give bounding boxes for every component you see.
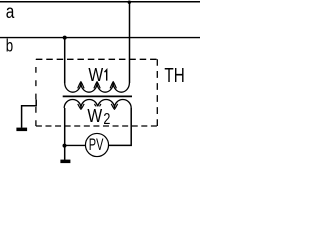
winding W2 cusp 1 bbox=[78, 104, 84, 109]
voltmeter PV circle bbox=[85, 133, 108, 156]
wire: junction to PV left bbox=[65, 144, 86, 146]
junction dot on line b bbox=[63, 36, 67, 40]
winding W1 cusp 3 bbox=[110, 82, 116, 89]
svg-text:W: W bbox=[87, 105, 102, 126]
transformer core line bbox=[63, 95, 132, 97]
svg-text:2: 2 bbox=[103, 111, 110, 128]
W2 label background bbox=[86, 106, 112, 124]
winding W1 cusp 1 bbox=[78, 82, 84, 89]
wire: W2 left end down to ground bbox=[64, 108, 66, 160]
dashed enclosure TH box: bottom edge bbox=[36, 125, 157, 127]
wire: horizontal from box edge to left bbox=[22, 106, 37, 128]
winding W1 (primary coil, loops facing down) bbox=[65, 83, 130, 92]
ground (bottom): bar under junction bbox=[60, 160, 70, 164]
winding W2 cusp 2 bbox=[95, 104, 101, 109]
ground (left): bar bbox=[16, 128, 27, 132]
svg-text:W: W bbox=[88, 64, 103, 85]
winding W2 cusp 3 bbox=[111, 104, 117, 109]
wire: vertical from line b to W1 left end bbox=[64, 38, 66, 83]
wire: vertical from line a to W1 right end bbox=[129, 2, 131, 83]
winding W1 cusp 2 bbox=[94, 82, 100, 89]
dashed enclosure TH box: right edge bbox=[156, 59, 158, 126]
svg-text:a: a bbox=[6, 2, 15, 23]
ground branch (left): terminal tick on box edge bbox=[35, 100, 37, 107]
dashed enclosure TH box: left edge bbox=[35, 59, 37, 126]
wire: bus line b bbox=[0, 37, 200, 39]
svg-text:b: b bbox=[6, 36, 13, 56]
wire: bus line a bbox=[0, 1, 200, 3]
wire: W2 right end down bbox=[109, 108, 131, 145]
winding W2 (secondary coil, loops facing up) bbox=[64, 100, 131, 109]
junction dot on line a bbox=[128, 1, 131, 4]
junction dot at PV branch bbox=[63, 144, 67, 148]
dashed enclosure TH box: top edge bbox=[36, 58, 157, 60]
svg-text:PV: PV bbox=[89, 136, 104, 154]
svg-text:TH: TH bbox=[164, 64, 184, 87]
